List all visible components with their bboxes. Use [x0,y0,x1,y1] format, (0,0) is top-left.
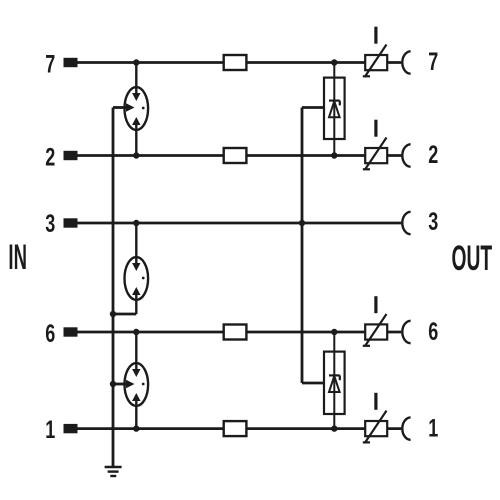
resistor (wire 1) [224,421,247,436]
resistor (wire 6) [224,325,247,340]
junction wire2/V1 [331,152,337,158]
wire F2 bottom to ground bus [113,313,136,316]
label IN [8,238,27,277]
wire 1 (input to output) [78,427,402,430]
gas discharge tube F1 (3-electrode, between wires 7 and 2) [113,63,148,156]
pin label 7 (output) [428,47,438,76]
svg-text:7: 7 [428,47,438,76]
ground bus wire (vertical) [112,108,115,468]
wire 2 (input to output) [78,154,402,157]
output socket contact 6 [402,321,410,343]
wire 6 (input to output) [78,331,402,334]
junction wire3/vertical [299,220,305,226]
current label I (wire 6) [374,296,377,313]
ground [105,467,122,476]
varistor (wire 6) [363,314,387,346]
pin label 2 (output) [428,140,438,169]
suppressor diode V1 (between wires 7 and 2) [324,63,345,156]
wire 3 (input to output) [78,222,402,225]
svg-text:2: 2 [45,143,55,172]
junction wire6/F3 [133,329,139,335]
pin label 1 (input) [45,415,55,444]
junction wire7/V1 [331,59,337,65]
svg-text:7: 7 [45,50,55,79]
svg-text:3: 3 [428,207,438,236]
pin label 7 (input) [45,50,55,79]
pin label 3 (input) [45,209,55,238]
junction wire1/V2 [331,425,337,431]
resistor (wire 7) [224,55,247,70]
pin label 3 (output) [428,207,438,236]
input terminal 1 [64,424,78,433]
junction wire3/F2 [133,220,139,226]
output socket contact 3 [402,212,410,234]
svg-text:2: 2 [428,140,438,169]
wire 7 (input to output) [78,61,402,64]
pin label 6 (output) [428,317,438,346]
pin label 1 (output) [428,413,438,442]
svg-text:IN: IN [8,238,27,277]
resistor (wire 2) [224,148,247,163]
input terminal 3 [64,218,78,227]
junction wire2/F1 [133,152,139,158]
junction wire6/V2 [331,329,337,335]
junction wire7/F1 [133,59,139,65]
vertical wire between suppressor diodes and wire 3 [301,108,304,384]
varistor (wire 2) [363,138,387,170]
junction ground bus/F2 [110,311,116,317]
svg-text:1: 1 [45,415,55,444]
suppressor diode V2 (between wires 6 and 1) [324,332,345,429]
output socket contact 1 [402,417,410,439]
label OUT [451,238,492,278]
input terminal 7 [64,58,78,67]
output socket contact 2 [402,144,410,166]
gas discharge tube F2 (2-electrode, between wire 3 and ground bus) [125,223,149,314]
junction wire1/F3 [133,425,139,431]
current label I (wire 7) [374,27,377,44]
gas discharge tube F3 (3-electrode, between wires 6 and 1) [113,332,148,429]
input terminal 2 [64,151,78,160]
svg-text:6: 6 [45,319,55,348]
svg-text:3: 3 [45,209,55,238]
pin label 6 (input) [45,319,55,348]
input terminal 6 [64,327,78,336]
svg-text:OUT: OUT [451,238,492,278]
varistor (wire 7) [363,45,387,77]
svg-text:1: 1 [428,413,438,442]
current label I (wire 1) [374,393,377,410]
current label I (wire 2) [374,120,377,137]
svg-text:6: 6 [428,317,438,346]
output socket contact 7 [402,51,410,73]
wire to diode V2 [302,382,324,385]
junction ground bus/F3 arm [110,381,116,387]
varistor (wire 1) [363,411,387,443]
pin label 2 (input) [45,143,55,172]
wire to diode V1 [302,106,324,109]
